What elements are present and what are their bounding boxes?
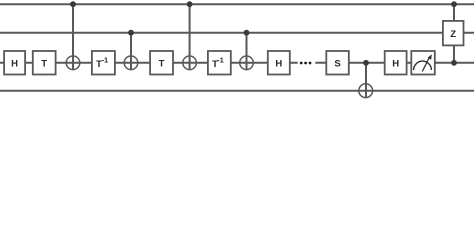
control dot on q0 at x=190 [187,1,193,7]
wire q1 [0,32,474,34]
gate H1 box [4,51,25,75]
gate H3 box [385,51,407,75]
gate H2 box [268,51,290,75]
measurement meter needle arrowhead [428,54,432,59]
wire q3 [0,90,474,92]
measurement meter arc [414,61,432,70]
svg-text:S: S [334,59,340,70]
svg-text:H: H [392,59,399,70]
wire control q2 to CNOT-5 [365,63,367,98]
gate T1 box [33,51,56,75]
control dot on q2 at x=366 [363,60,369,66]
wire q2 (right segment) [315,62,474,64]
wire control q0 to CNOT-3 [189,4,191,69]
CNOT target on q2 at x=246.5 [240,56,254,70]
gate Z box [443,21,464,46]
gate T2 box [150,51,173,75]
control dot on q1 at x=246.5 [244,30,250,36]
gate Tdg1 box [92,51,115,75]
svg-text:H: H [11,59,18,70]
wire control q1 to CNOT-4 [246,33,248,70]
gate S box [326,51,349,75]
wire control q0 to CNOT-1 [72,4,74,69]
measurement meter box [411,51,435,75]
svg-text:Z: Z [450,29,456,40]
gate Tdg2 box [208,51,231,75]
control dot on q2 at x=454 [451,60,457,66]
CNOT target on q2 at x=131 [124,56,138,70]
svg-text:-1: -1 [102,56,109,65]
wire control q2 to Z gate [453,45,455,63]
svg-text:-1: -1 [217,56,224,65]
svg-text:H: H [275,59,282,70]
wire q2 (left segment, broken for ellipsis) [0,62,298,64]
wire q0 [0,3,474,5]
CNOT target on q3 at x=365.5 [359,84,373,98]
wire control q0 to Z gate [453,4,455,21]
control dot on q0 at x=454 [451,1,457,7]
svg-text:T: T [41,59,47,70]
CNOT target on q2 at x=73 [66,56,80,70]
CNOT target on q2 at x=190 [183,56,197,70]
control dot on q1 at x=131 [128,30,134,36]
control dot on q0 at x=73 [70,1,76,7]
measurement meter needle [422,58,429,72]
svg-text:T: T [159,59,165,70]
wire control q1 to CNOT-2 [130,33,132,70]
ellipsis on q2 [300,62,312,65]
